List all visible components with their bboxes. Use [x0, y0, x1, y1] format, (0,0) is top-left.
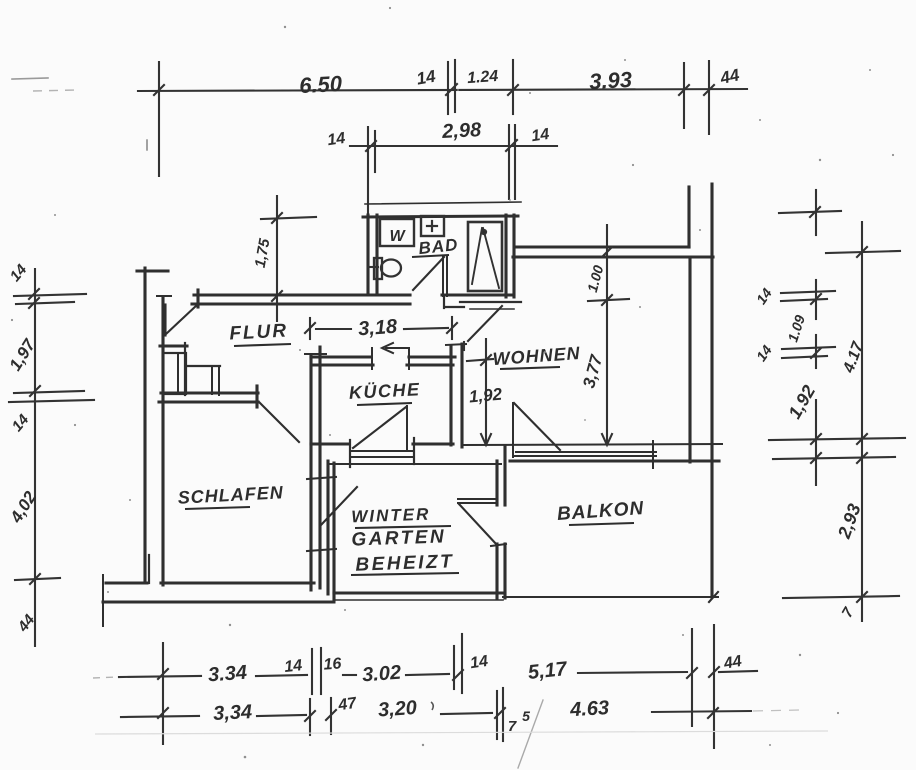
kitchen balcony door frame left — [349, 440, 351, 467]
svg-text:14: 14 — [284, 657, 304, 676]
schlafen door frame tick — [255, 386, 258, 407]
wintergarten door tick upper — [307, 477, 336, 479]
tick bath wall left outer — [367, 127, 369, 214]
svg-text:14: 14 — [469, 653, 489, 672]
dim 1,92 vertical — [485, 339, 487, 442]
closet box2 verticals — [211, 366, 213, 394]
tick y391 long — [14, 391, 84, 393]
tick slash — [679, 85, 689, 95]
tick y303 — [16, 302, 74, 304]
slashes x163 — [158, 669, 168, 679]
KUECHE underline — [357, 403, 412, 405]
slash — [305, 711, 315, 721]
tick y597 — [783, 596, 899, 598]
svg-text:1.24: 1.24 — [467, 68, 499, 87]
closet box1 — [163, 353, 186, 394]
wintergarten door leaf upper — [458, 498, 496, 500]
wall schlafen south left piece — [106, 581, 147, 584]
stray mark bottom — [518, 700, 543, 768]
wintergarten door swing — [459, 504, 497, 545]
tick y579 — [15, 578, 60, 580]
walls — [103, 184, 722, 626]
dim line segments row2 — [121, 716, 199, 717]
slash x713 — [708, 708, 718, 718]
BEHEIZT underline — [351, 573, 459, 575]
schlafen door swing — [259, 402, 299, 442]
bath south step horizontal — [446, 306, 464, 308]
kitchen balcony door sill upper — [352, 450, 413, 452]
corner tick kitchen top-left — [305, 353, 326, 355]
svg-text:1,92: 1,92 — [468, 385, 503, 407]
wall kitchen north right lower — [407, 363, 453, 366]
dim line vertical — [276, 196, 278, 321]
wohnen south wall main — [510, 459, 719, 462]
wohnen slider upper — [516, 451, 656, 453]
wall wintergarten south upper — [334, 591, 503, 594]
svg-text:44: 44 — [722, 653, 744, 673]
svg-text:WINTER: WINTER — [351, 505, 431, 527]
dimension chain right B: 4.17 / 2,93 / 7 — [769, 222, 905, 621]
wohnen balcony door leaf — [512, 403, 514, 457]
tick y401 long — [9, 400, 94, 402]
svg-text:14: 14 — [530, 126, 550, 145]
tick slash left — [154, 85, 164, 95]
tick slash — [30, 574, 40, 584]
wall east upper outer — [710, 184, 713, 597]
tick y294 — [14, 294, 86, 296]
basin box — [421, 216, 444, 236]
svg-text:W: W — [389, 228, 406, 245]
shower v right — [483, 228, 499, 288]
dimension chain left: 14 / 1,97 / 14 / 4,02 / 44 — [9, 269, 94, 646]
tick slash — [29, 289, 39, 299]
svg-text:14: 14 — [326, 130, 346, 149]
wall wintergarten south lower — [334, 599, 503, 601]
tick x310 — [311, 649, 313, 694]
tick x462 — [461, 634, 463, 693]
wall wintergarten west inner — [332, 463, 335, 600]
bath west wall inner — [375, 215, 378, 295]
faint leader dashes top row1 — [33, 90, 76, 91]
wc bowl — [381, 260, 401, 277]
FLUR underline — [234, 344, 291, 346]
outer corner tick bottom-left — [102, 575, 104, 626]
wall flur south upper — [161, 391, 258, 394]
dim line row1 — [138, 89, 747, 91]
wc tick — [368, 266, 378, 268]
faint leader dashes bottom row1 — [93, 677, 117, 678]
long tick y443 — [769, 438, 905, 440]
kitchen balcony door frame right — [413, 438, 415, 464]
bath top wall main — [363, 216, 518, 217]
shower outer — [468, 222, 502, 291]
wall kitchen north left lower — [313, 363, 373, 366]
wall schlafen east outer — [309, 356, 312, 590]
svg-text:GARTEN: GARTEN — [351, 526, 447, 550]
svg-text:FLUR: FLUR — [229, 320, 289, 344]
svg-text:3.34: 3.34 — [207, 662, 247, 687]
double tick y291 — [781, 291, 835, 293]
svg-text:3,20: 3,20 — [377, 697, 417, 722]
washing machine box — [380, 219, 414, 246]
closet box2 top — [186, 365, 220, 367]
wall schlafen east inner — [318, 347, 321, 588]
tick slash — [704, 85, 714, 95]
entrance arrow shaft — [386, 347, 409, 349]
tick x163 tall — [162, 643, 164, 744]
wall schlafen south — [161, 581, 314, 584]
long tick y460 — [773, 457, 895, 459]
svg-text:2,98: 2,98 — [441, 119, 483, 143]
faint trailing dashes bottom row2 — [753, 710, 800, 711]
svg-text:16: 16 — [323, 655, 342, 673]
slash A — [811, 434, 821, 444]
svg-text:5: 5 — [522, 708, 530, 724]
faint scan line across bottom — [95, 731, 828, 734]
wall kitchen south right — [413, 442, 453, 445]
svg-text:3,18: 3,18 — [357, 316, 398, 341]
entry door frame tick — [196, 290, 199, 307]
wall flur south lower — [159, 400, 258, 403]
double tick y298 — [781, 299, 827, 301]
svg-text:3.02: 3.02 — [361, 662, 401, 687]
tick slash at wall — [272, 291, 282, 301]
wall outer bottom west — [103, 601, 334, 604]
shower dot — [482, 230, 486, 234]
kitchen door tick left — [371, 348, 373, 369]
wohnen balcony door swing — [514, 403, 560, 450]
kitchen door leaf — [406, 406, 408, 451]
dim 1.00-3,77 vertical — [606, 225, 608, 443]
dimension chain bottom row 1: 3.34 / 14 / 16 / 3.02 / 14 / 5,17 / 44 — [119, 625, 757, 748]
closet bottom — [163, 392, 220, 394]
dimension chain bottom row 2: 3,34 / 47 / 3,20 / 75 / 4.63 — [121, 688, 751, 741]
svg-text:3,34: 3,34 — [213, 701, 253, 725]
dimension chain top row 2: 14 / 2,98 / 14 — [350, 125, 557, 214]
dim 3,18 line right — [404, 328, 448, 329]
tick slash — [366, 141, 376, 151]
wall west top cap — [137, 269, 168, 272]
tick x692 tall — [691, 629, 693, 726]
fixtures and inner dims — [12, 78, 629, 768]
BAD underline — [412, 255, 449, 257]
tick x503 — [502, 688, 504, 741]
closet box1 inner line — [177, 353, 179, 394]
basin plus h — [427, 225, 437, 227]
WINTER underline — [355, 526, 451, 528]
tick x714 tall — [713, 625, 715, 748]
wohnen south wall thin — [462, 444, 722, 445]
slash — [495, 708, 505, 718]
closet right edge — [184, 343, 186, 395]
dimension chain right A: 14 / 1.09 / 14 / 1,92 — [779, 190, 841, 485]
kitchen balcony door sill lower — [352, 456, 413, 458]
bath door leaf — [442, 256, 444, 296]
svg-text:14: 14 — [415, 66, 437, 88]
dimension chain top row 1: 6.50 / 14 / 1.24 / 3.93 / 44 — [138, 60, 747, 176]
svg-text:5,17: 5,17 — [527, 658, 569, 684]
cross y212 — [779, 211, 841, 213]
tick slash — [506, 140, 517, 151]
bath south lower line — [460, 301, 521, 303]
slash — [687, 668, 697, 678]
wall wintergarten north — [330, 463, 501, 465]
double tick y356 — [782, 356, 827, 358]
slash B2 — [857, 453, 867, 463]
dim 1,92 arrow head — [481, 434, 491, 445]
slash — [453, 670, 463, 680]
basin plus v — [431, 221, 433, 231]
tick slash — [272, 213, 282, 223]
wall wintergarten west outer — [326, 461, 329, 594]
wall wohnen north lower — [513, 255, 713, 258]
kitchen door tick right — [408, 348, 410, 369]
wall west inner — [161, 297, 164, 585]
slider end tick — [652, 441, 654, 468]
tick left end — [158, 62, 160, 176]
bath top wall thin — [365, 202, 521, 204]
wall wintergarten east upper — [495, 461, 498, 505]
tick x337 — [309, 699, 311, 735]
wall kitchen east inner — [460, 344, 463, 447]
wall east lower inner — [688, 257, 691, 462]
tick bath wall left inner — [374, 131, 376, 172]
wall west inner cap — [157, 295, 171, 297]
entry door swing — [166, 305, 197, 334]
dim line row2 — [350, 145, 557, 147]
tick 44 right — [708, 61, 710, 134]
slash — [857, 592, 867, 602]
dim 1,92 slash — [481, 355, 491, 365]
dim 3,18 tick right — [451, 317, 453, 339]
slash — [857, 247, 867, 257]
wall east upper inner — [687, 187, 690, 247]
tick y218 — [261, 217, 316, 219]
bath east wall inner — [504, 215, 507, 297]
balcony corner slash — [709, 592, 718, 602]
dim 3,18 tick left — [309, 318, 311, 339]
bath south offset line — [470, 308, 514, 310]
wall flur north lower — [192, 302, 410, 305]
dim 3,18 line left — [316, 328, 351, 330]
kitchen door swing — [353, 407, 406, 448]
wohnen slider lower — [514, 455, 656, 457]
bath east wall outer — [512, 215, 515, 297]
wohnen west door swing — [468, 306, 502, 341]
cross y300 — [588, 299, 629, 301]
tick slash — [30, 386, 40, 396]
stray mark j — [146, 140, 148, 150]
slash — [810, 207, 820, 217]
dim 3,77 arrow head — [602, 434, 612, 445]
svg-text:4.63: 4.63 — [569, 697, 610, 721]
closet cap tick — [160, 344, 187, 347]
double tick y348 — [782, 347, 835, 349]
tick slash — [446, 84, 457, 95]
kitchen east top tick — [446, 344, 466, 345]
svg-text:3.93: 3.93 — [589, 67, 633, 94]
bath west wall outer — [366, 215, 369, 295]
schlafen-wintergarten door swing — [321, 487, 357, 525]
dim line segments row1 — [119, 676, 201, 677]
wall wintergarten east lower — [495, 544, 498, 598]
bath south step vertical — [443, 295, 445, 308]
svg-text:6.50: 6.50 — [299, 71, 344, 98]
bath door swing — [413, 257, 444, 290]
tick at 6.50/14 double — [447, 62, 449, 114]
slash at wall — [602, 247, 612, 257]
wall west outer — [143, 268, 146, 583]
tick x452 — [453, 646, 455, 689]
tick at 3.93/44 — [683, 63, 685, 128]
wintergarten door leaf lower — [458, 502, 496, 504]
tick slash — [508, 85, 518, 95]
wall piece west bottom — [148, 555, 150, 583]
shower v left — [472, 228, 482, 284]
WOHNEN underline — [500, 367, 560, 369]
tick bath wall right double — [508, 125, 510, 199]
bath south wall (shower bottom) — [442, 293, 512, 296]
tick x341 — [330, 698, 332, 734]
SCHLAFEN underline — [185, 507, 250, 509]
wc tank — [374, 258, 382, 279]
tick x315 — [320, 648, 322, 694]
BALKON underline — [569, 523, 634, 525]
svg-text:KÜCHE: KÜCHE — [348, 379, 420, 403]
slash — [709, 667, 719, 677]
dimension 1,75 (hall to bath wall) — [261, 196, 316, 321]
stray mark top-left — [12, 78, 48, 79]
tick at 1.24/3.93 — [512, 60, 514, 114]
dim line left vertical — [34, 269, 36, 646]
svg-text:47: 47 — [336, 695, 358, 715]
wall flur north upper — [194, 293, 410, 296]
cross y252 — [826, 251, 900, 253]
tick x497 — [496, 691, 498, 739]
svg-text:BEHEIZT: BEHEIZT — [355, 551, 454, 575]
entrance arrow head — [382, 343, 393, 353]
slash — [811, 348, 821, 358]
wall kitchen north right upper — [409, 355, 455, 358]
dim line vertical B — [861, 222, 863, 621]
entry door leaf — [163, 305, 166, 335]
wintergarten door tick lower — [307, 549, 336, 551]
wohnen west door frame tick — [463, 342, 465, 350]
balcony south wall — [503, 596, 718, 598]
wall wohnen north upper — [517, 245, 689, 248]
wall kitchen south left — [311, 442, 349, 445]
wintergarten door frame tick — [491, 544, 506, 546]
wall kitchen north left upper — [311, 355, 371, 358]
dim line vertical A — [815, 190, 817, 235]
stray paren mark — [431, 702, 433, 710]
slash B — [857, 434, 867, 444]
dim 1,92 top tick — [467, 359, 493, 361]
wall kitchen east outer — [449, 346, 452, 445]
